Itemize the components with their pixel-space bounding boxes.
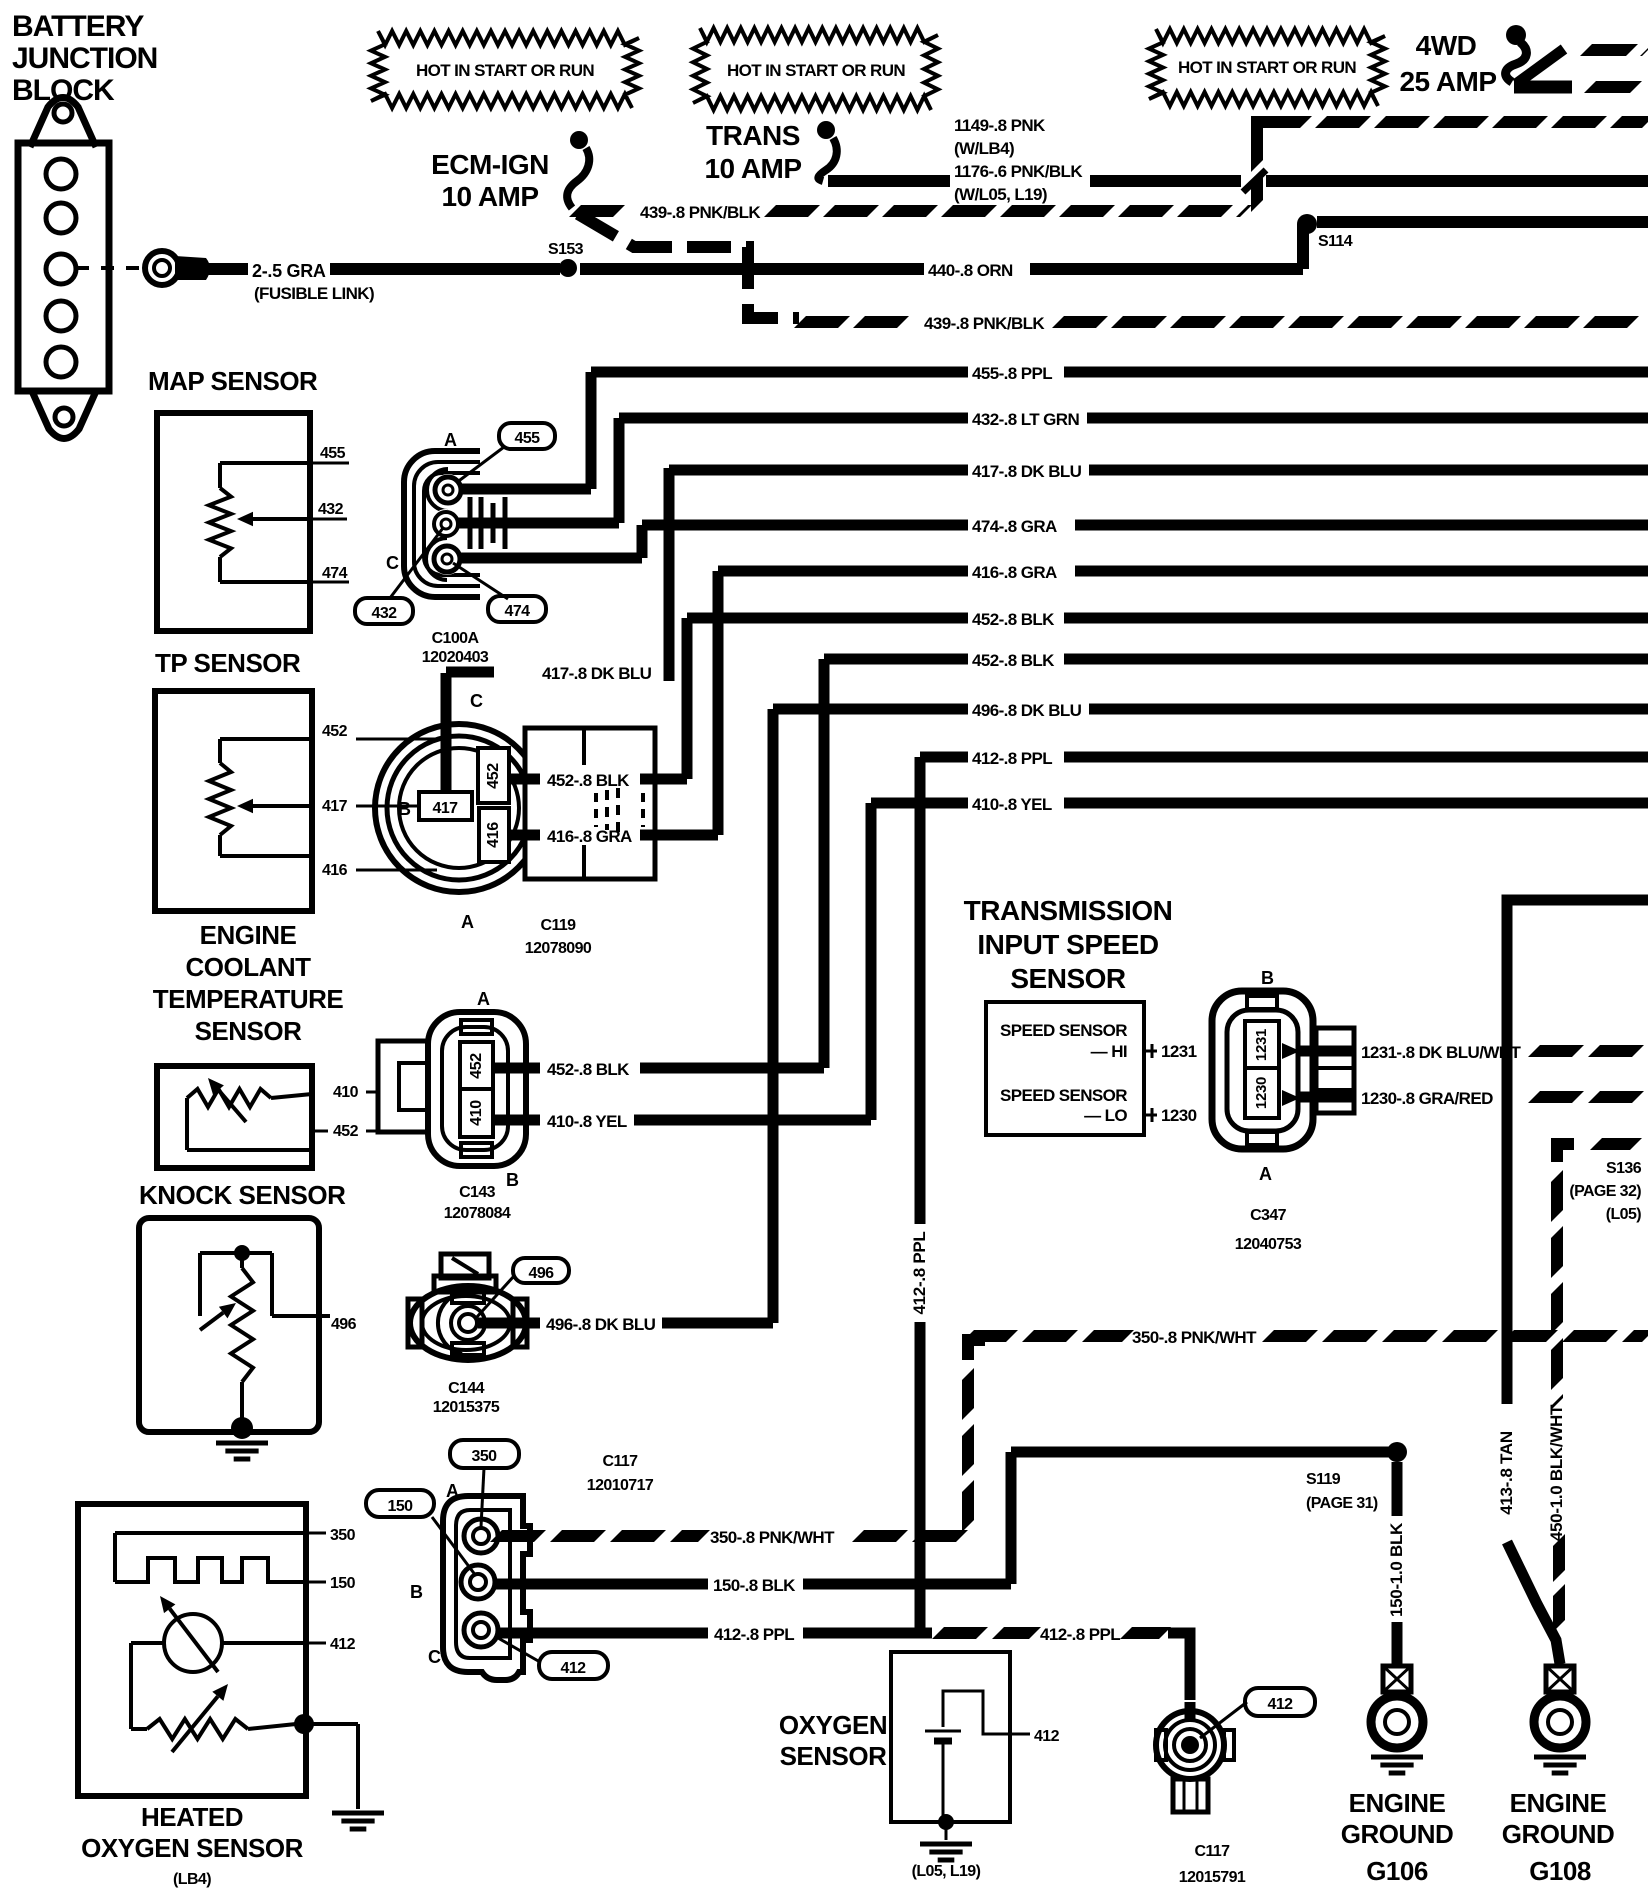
svg-text:417-.8 DK BLU: 417-.8 DK BLU [972,462,1082,481]
wire 440-.8 ORN [580,224,1303,280]
TP pin line 416 [322,862,437,879]
svg-text:439-.8 PNK/BLK: 439-.8 PNK/BLK [924,314,1045,333]
splice S119 [1306,1442,1407,1512]
svg-text:1230: 1230 [1161,1106,1197,1125]
hot-in-start-or-run box 3 [1149,29,1385,106]
wire 432 riser [614,418,625,523]
ECT sensor title [153,920,344,1046]
svg-text:B: B [398,799,411,819]
HO2S pin line 350 [306,1527,356,1544]
MAP sensor potentiometer [209,463,310,582]
connector C119 mating half [525,728,655,879]
connector C100A pin label C [386,553,399,573]
svg-text:452: 452 [333,1123,359,1140]
MAP sensor box [157,413,310,631]
svg-text:B: B [410,1582,423,1602]
label fusible link [254,284,374,303]
svg-text:C119: C119 [541,917,577,934]
svg-text:(W/LB4): (W/LB4) [954,139,1014,158]
wire 350-.8 PNK/WHT upper [968,1328,1648,1347]
splice S114 [1297,214,1353,250]
svg-text:C: C [470,691,483,711]
svg-text:HOT IN START OR RUN: HOT IN START OR RUN [1178,58,1356,77]
svg-text:(LB4): (LB4) [173,1871,211,1888]
callout 474 [453,563,546,622]
callout 350 C117 [450,1440,519,1527]
svg-text:G106: G106 [1366,1856,1428,1886]
connector C347 pin label B [1261,968,1274,988]
connector C143 left tab [378,1041,430,1132]
svg-text:439-.8 PNK/BLK: 439-.8 PNK/BLK [640,203,761,222]
wire C100A pin C to 474 riser [458,553,642,564]
splice S136 label [1569,1160,1641,1223]
svg-text:12020403: 12020403 [422,649,489,666]
connector C117 pin C [464,1613,498,1647]
svg-text:452: 452 [322,723,348,740]
svg-text:GROUND: GROUND [1341,1819,1454,1849]
svg-text:416: 416 [485,822,502,848]
svg-text:C143: C143 [459,1184,496,1201]
svg-text:(W/L05, L19): (W/L05, L19) [954,185,1047,204]
hot-in-start-or-run box 1 [371,31,639,108]
svg-text:— HI: — HI [1091,1042,1127,1061]
svg-text:SPEED SENSOR: SPEED SENSOR [1000,1086,1127,1105]
svg-text:(FUSIBLE LINK): (FUSIBLE LINK) [254,284,374,303]
svg-text:350-.8 PNK/WHT: 350-.8 PNK/WHT [1132,1328,1257,1347]
svg-text:412-.8 PPL: 412-.8 PPL [1040,1625,1120,1644]
speed sensor box [986,1002,1144,1135]
speed sensor LO [1000,1086,1197,1125]
connector C100A body [404,451,480,597]
svg-text:150: 150 [388,1498,414,1515]
svg-text:432: 432 [372,605,398,622]
wire C143 410 to riser [493,1112,871,1131]
svg-text:(L05, L19): (L05, L19) [912,1863,981,1880]
ECT sensor box [157,1066,312,1168]
TP sensor title [155,648,301,678]
splice S153 [548,241,584,277]
svg-text:150: 150 [330,1575,356,1592]
svg-text:SENSOR: SENSOR [195,1016,303,1046]
connector C347 name [1235,1207,1302,1253]
speed sensor HI [1000,1021,1197,1061]
svg-text:350: 350 [330,1527,356,1544]
connector C143 name [444,1184,511,1222]
svg-text:350: 350 [472,1448,498,1465]
wire dashed link block to ring terminal [76,266,142,270]
wire 412-.8 PPL bus run [920,749,1648,768]
svg-text:ENGINE: ENGINE [1510,1788,1607,1818]
svg-text:C144: C144 [448,1380,485,1397]
connector C119 pin label C [470,691,483,711]
oxygen sensor title [779,1710,887,1771]
svg-text:440-.8 ORN: 440-.8 ORN [928,261,1013,280]
svg-text:TP SENSOR: TP SENSOR [155,648,301,678]
svg-text:TEMPERATURE: TEMPERATURE [153,984,344,1014]
callout 455 [456,423,555,483]
wire C144 496 to riser [478,1315,773,1334]
oxygen sensor cell [925,1691,1010,1830]
callout 496 C144 [476,1258,569,1318]
connector C100A name [422,630,489,666]
svg-text:B: B [506,1170,519,1190]
svg-text:1231: 1231 [1161,1042,1197,1061]
svg-text:2-.5 GRA: 2-.5 GRA [252,261,326,281]
connector C347 pin label A [1259,1164,1272,1184]
svg-text:KNOCK SENSOR: KNOCK SENSOR [139,1180,346,1210]
wire dashed 4WD feed [1257,122,1648,140]
battery junction block title [12,10,157,107]
svg-text:496-.8 DK BLU: 496-.8 DK BLU [546,1315,656,1334]
wire TRANS fuse output [828,175,950,187]
wire 452-.8 BLK bus run [687,610,1648,629]
svg-text:417: 417 [322,798,348,815]
svg-text:MAP SENSOR: MAP SENSOR [148,366,318,396]
svg-text:452: 452 [468,1053,485,1079]
svg-text:12078090: 12078090 [525,940,592,957]
svg-text:OXYGEN: OXYGEN [779,1710,887,1740]
connector C117 pin label C [428,1647,441,1667]
svg-text:HOT IN START OR RUN: HOT IN START OR RUN [416,61,594,80]
svg-text:S114: S114 [1318,233,1353,250]
wire 410-.8 YEL bus run [871,795,1648,814]
svg-text:C347: C347 [1250,1207,1287,1224]
HO2S pin line 150 [306,1575,356,1592]
callout 432 [355,528,443,624]
connector C117 pin label A [446,1481,459,1501]
svg-text:TRANSMISSION: TRANSMISSION [964,895,1173,926]
svg-text:1230-.8 GRA/RED: 1230-.8 GRA/RED [1361,1089,1493,1108]
oxygen sensor box [891,1652,1010,1822]
svg-text:A: A [477,989,490,1009]
svg-text:350-.8 PNK/WHT: 350-.8 PNK/WHT [710,1528,835,1547]
svg-text:HEATED: HEATED [141,1802,243,1832]
wire 450-1.0 BLK/WHT dashed [1547,1144,1648,1640]
svg-text:ENGINE: ENGINE [200,920,297,950]
TP pin line 417 [322,798,430,815]
svg-text:413-.8 TAN: 413-.8 TAN [1497,1431,1516,1515]
wire 416 riser [713,571,724,835]
svg-text:452-.8 BLK: 452-.8 BLK [547,771,630,790]
HO2S pin line 412 [306,1636,356,1653]
connector C347 pin 1230 box [1245,1068,1279,1118]
connector C117 single body [1156,1702,1234,1812]
svg-text:417: 417 [433,800,459,817]
svg-text:10 AMP: 10 AMP [704,153,801,184]
svg-text:410: 410 [333,1084,359,1101]
svg-text:4WD: 4WD [1416,30,1477,61]
svg-text:452-.8 BLK: 452-.8 BLK [972,651,1055,670]
fuse TRANS symbol [817,121,837,181]
svg-text:496: 496 [331,1316,357,1333]
svg-text:410-.8 YEL: 410-.8 YEL [972,795,1052,814]
svg-text:GROUND: GROUND [1502,1819,1615,1849]
svg-text:— LO: — LO [1084,1106,1127,1125]
svg-text:474-.8 GRA: 474-.8 GRA [972,517,1057,536]
wire 412 riser long [910,757,929,1638]
svg-text:417-.8 DK BLU: 417-.8 DK BLU [542,664,652,683]
HO2S ground [332,1813,384,1829]
connector C143 pin 452 box [460,1042,493,1089]
wire 1230-.8 GRA/RED [1300,1089,1648,1108]
knock pin line 496 [318,1316,357,1333]
wire dash from 4WD fuse lower [1590,81,1648,93]
wire dashed vertical 439 riser [1251,126,1263,206]
wire 432-.8 LT GRN bus run [619,410,1648,429]
wire dash from 4WD fuse upper [1586,44,1648,56]
svg-text:C117: C117 [1195,1843,1231,1860]
heated oxygen sensor box [78,1504,306,1796]
ECT pin line 452 [312,1123,376,1140]
wire 2-.5 GRA [206,261,560,281]
connector C117 pin A [464,1519,498,1553]
svg-text:12015791: 12015791 [1179,1869,1246,1886]
wire 412-.8 PPL bottom run [497,1625,1190,1700]
knock sensor ground [216,1443,268,1459]
fuse 4WD 25A label [1399,30,1496,97]
svg-text:12040753: 12040753 [1235,1236,1302,1253]
connector C100A pin B [431,509,461,539]
wire 455 riser [586,372,597,489]
wire 474 riser [637,525,648,558]
svg-text:12015375: 12015375 [433,1399,500,1416]
callout 412 bottom [1200,1688,1315,1738]
knock sensor box [139,1218,319,1432]
svg-text:C117: C117 [603,1453,639,1470]
wire 410 riser to C143 [866,803,877,1120]
svg-text:BATTERY: BATTERY [12,10,144,43]
svg-text:1149-.8 PNK: 1149-.8 PNK [954,116,1046,135]
wire C119 452 to riser [508,771,687,790]
svg-text:150-1.0 BLK: 150-1.0 BLK [1387,1522,1406,1617]
TP pin line 452 [322,723,437,740]
HO2S ground node [294,1714,358,1809]
wire 452-.8 BLK bus run [824,651,1648,670]
fuse ECM-IGN symbol [567,131,589,208]
connector C119 pin label A [461,912,474,932]
connector C119 pin 452 box [478,748,509,803]
wire 413-.8 TAN [1497,900,1648,1664]
wire C100A pin B to 432 riser [456,518,619,529]
connector C143 pin label B [506,1170,519,1190]
wire 440 to right edge [1317,216,1648,228]
connector C143 body [428,1012,526,1166]
HO2S sense cell [131,1596,306,1729]
knock sensor title [139,1180,346,1210]
hot-in-start-or-run box 2 [693,28,938,110]
connector C100A pin C [426,538,463,580]
wire 1231-.8 DK BLU/WHT [1300,1043,1648,1062]
knock sensor circuit [200,1245,318,1439]
fuse 4WD symbol [1506,25,1572,87]
connector C347 body [1212,991,1313,1149]
svg-text:12010717: 12010717 [587,1477,654,1494]
svg-text:1231-.8 DK BLU/WHT: 1231-.8 DK BLU/WHT [1361,1043,1521,1062]
HO2S heater element [115,1533,306,1582]
wire 474-.8 GRA bus run [642,517,1648,536]
battery junction block [18,98,109,439]
oxygen sensor pin line 412 [1010,1728,1060,1745]
wire C100A pin A to 455 riser [460,484,591,495]
connector C144 body [408,1254,527,1360]
connector C143 pin 410 box [460,1089,493,1137]
svg-text:G108: G108 [1529,1856,1591,1886]
svg-text:(PAGE 31): (PAGE 31) [1306,1495,1378,1512]
svg-text:A: A [446,1481,459,1501]
ECT pin line 410 [333,1084,376,1101]
svg-text:455-.8 PPL: 455-.8 PPL [972,364,1052,383]
svg-text:ECM-IGN: ECM-IGN [431,149,549,180]
svg-text:474: 474 [322,565,348,582]
TP sensor box [155,691,312,911]
svg-text:S119: S119 [1306,1471,1341,1488]
wire 496 riser to C144 [768,709,779,1323]
svg-text:B: B [1261,968,1274,988]
wire 439-.8 PNK/BLK lower [800,314,1648,333]
svg-text:416-.8 GRA: 416-.8 GRA [972,563,1057,582]
connector C119 body [375,724,543,892]
connector C100A terminal hatch [470,497,505,549]
ring terminal fusible link [145,251,210,285]
callout 150 C117 [366,1490,476,1576]
connector C117 pin label B [410,1582,423,1602]
svg-text:416-.8 GRA: 416-.8 GRA [547,827,632,846]
svg-text:SENSOR: SENSOR [1010,963,1126,994]
ground G106 [1341,1666,1454,1886]
ECT thermistor [187,1078,312,1150]
svg-text:SENSOR: SENSOR [780,1741,888,1771]
svg-text:410-.8 YEL: 410-.8 YEL [547,1112,627,1131]
svg-text:452: 452 [485,763,502,789]
wire 150-1.0 BLK to G106 [1387,1462,1406,1664]
connector C347 latch [1282,1028,1354,1113]
svg-text:455: 455 [515,430,541,447]
svg-text:412: 412 [1034,1728,1060,1745]
svg-text:432-.8 LT GRN: 432-.8 LT GRN [972,410,1079,429]
MAP pin line 455 [308,445,349,463]
connector C119 pin 416 box [479,808,509,862]
svg-text:S136: S136 [1606,1160,1642,1177]
svg-text:416: 416 [322,862,348,879]
svg-text:25 AMP: 25 AMP [1399,66,1496,97]
svg-text:452-.8 BLK: 452-.8 BLK [547,1060,630,1079]
wire 150-.8 BLK [494,1452,1392,1595]
connector C117 pin B [461,1565,495,1599]
svg-text:C100A: C100A [432,630,480,647]
svg-text:432: 432 [318,501,344,518]
wire 439 fuse drop to lower dashed [578,214,799,318]
heated oxygen sensor title [81,1802,303,1888]
connector C119 pin label B [398,799,411,819]
svg-text:JUNCTION: JUNCTION [12,42,157,75]
svg-text:450-1.0 BLK/WHT: 450-1.0 BLK/WHT [1547,1404,1566,1541]
wire 439-.8 PNK/BLK upper [575,203,1246,222]
svg-text:150-.8 BLK: 150-.8 BLK [713,1576,796,1595]
svg-text:1231: 1231 [1253,1029,1270,1061]
svg-text:412-.8 PPL: 412-.8 PPL [910,1232,929,1315]
connector C117 body [443,1496,530,1680]
svg-text:412: 412 [330,1636,356,1653]
connector C143 pin label A [477,989,490,1009]
svg-text:410: 410 [468,1100,485,1126]
wire 417-.8 DK BLU bus run [669,462,1648,481]
svg-text:A: A [461,912,474,932]
svg-text:(PAGE 32): (PAGE 32) [1569,1183,1641,1200]
svg-text:496-.8 DK BLU: 496-.8 DK BLU [972,701,1082,720]
MAP pin line 432 [308,501,347,519]
wire 455-.8 PPL bus run [591,364,1648,383]
svg-text:A: A [1259,1164,1272,1184]
transmission input speed sensor title [964,895,1173,994]
connector C117 single name [1179,1843,1246,1886]
svg-text:OXYGEN SENSOR: OXYGEN SENSOR [81,1833,303,1863]
svg-text:496: 496 [529,1265,555,1282]
svg-text:412: 412 [561,1660,587,1677]
wire 452 riser to C143 [819,659,830,1068]
HO2S variable resistor [147,1684,296,1752]
svg-text:COOLANT: COOLANT [185,952,311,982]
connector C117 name [587,1453,654,1494]
connector C100A pin label A [444,430,457,450]
wire C143 452 to riser [493,1060,824,1079]
connector C347 pin 1231 box [1245,1021,1279,1068]
wire C119 416 to riser [508,827,718,846]
wire 417 riser [664,468,675,681]
wire 496-.8 DK BLU bus run [773,701,1648,720]
svg-text:C: C [428,1647,441,1667]
svg-text:12078084: 12078084 [444,1205,511,1222]
wire 1176-.6 PNK/BLK [1090,170,1648,192]
ground G108 [1502,1666,1615,1886]
svg-text:S153: S153 [548,241,584,258]
svg-text:455: 455 [320,445,346,462]
wire 417 into C119 [446,664,652,790]
TP sensor potentiometer [209,739,310,856]
fuse ECM-IGN 10A label [431,149,549,212]
svg-text:A: A [444,430,457,450]
connector C100A pin A [427,469,464,511]
svg-text:474: 474 [505,603,531,620]
svg-text:452-.8 BLK: 452-.8 BLK [972,610,1055,629]
svg-text:412-.8 PPL: 412-.8 PPL [972,749,1052,768]
wire 452 riser to C119 [682,618,693,779]
svg-text:C: C [386,553,399,573]
wire 350 dashed riser [968,1340,985,1536]
svg-text:HOT IN START OR RUN: HOT IN START OR RUN [727,61,905,80]
connector C119 name [525,917,592,957]
MAP sensor title [148,366,318,396]
connector C144 name [433,1380,500,1416]
label 1149-.8 PNK [954,116,1083,204]
wire 416-.8 GRA bus run [718,563,1648,582]
svg-text:ENGINE: ENGINE [1349,1788,1446,1818]
svg-text:SPEED SENSOR: SPEED SENSOR [1000,1021,1127,1040]
svg-text:1176-.6 PNK/BLK: 1176-.6 PNK/BLK [954,162,1083,181]
svg-text:TRANS: TRANS [706,120,800,151]
svg-text:INPUT SPEED: INPUT SPEED [977,929,1158,960]
svg-text:412: 412 [1268,1696,1294,1713]
MAP pin line 474 [308,565,349,582]
svg-text:10 AMP: 10 AMP [441,181,538,212]
fuse TRANS 10A label [704,120,801,184]
wire 350-.8 PNK/WHT lower [496,1528,962,1547]
svg-text:1230: 1230 [1253,1077,1270,1109]
svg-text:412-.8 PPL: 412-.8 PPL [714,1625,794,1644]
connector C119 pin 417 box [419,792,472,820]
callout 412 C117 [498,1638,608,1679]
svg-text:(L05): (L05) [1606,1206,1641,1223]
oxygen sensor ground [912,1826,981,1880]
